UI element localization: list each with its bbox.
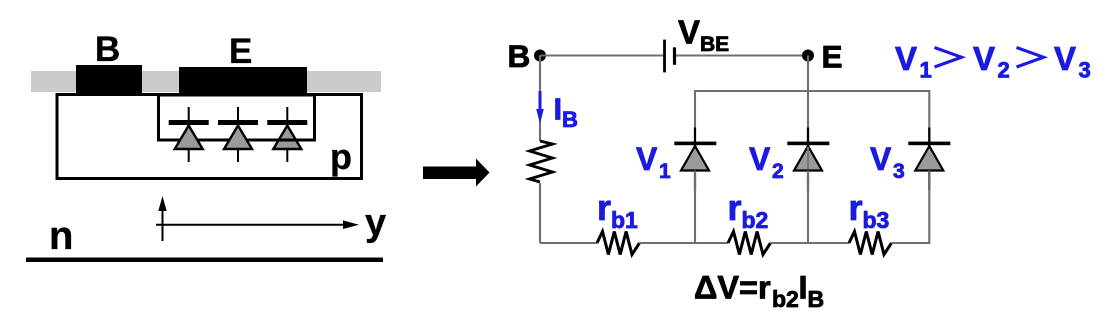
diode D2 (cross-section junction diode) — [224, 126, 252, 150]
diode D1 cathode bar (cross-section) — [169, 120, 209, 125]
svg-text:b1: b1 — [611, 207, 638, 233]
label V3 (diode voltage) — [870, 141, 905, 183]
axis vertical arrow — [158, 196, 166, 241]
diode V3 cathode lead — [928, 128, 930, 147]
wire diode V1 to bottom rail — [694, 171, 696, 244]
svg-text:V: V — [636, 141, 658, 177]
node E junction dot — [802, 50, 814, 62]
label r_b1 (resistor value) — [597, 187, 638, 233]
svg-text:B: B — [562, 107, 578, 132]
svg-text:2: 2 — [772, 160, 784, 183]
diode V2 cathode lead — [807, 128, 809, 147]
svg-text:E: E — [822, 39, 843, 75]
bottom rail wire segment 3 — [771, 242, 850, 244]
diode V3 — [915, 146, 943, 171]
svg-text:V: V — [749, 141, 771, 177]
wire battery to E node — [676, 54, 808, 56]
svg-text:1: 1 — [659, 160, 671, 183]
diode D1 (cross-section junction diode) — [175, 126, 203, 150]
diode V1 cathode bar — [674, 142, 716, 146]
bottom rail wire segment 2 — [640, 242, 729, 244]
label r_b2 (resistor value) — [728, 187, 769, 233]
diode V2 — [794, 146, 822, 171]
label V2 (diode voltage) — [749, 141, 784, 183]
svg-text:E: E — [229, 32, 252, 71]
svg-text:p: p — [330, 136, 352, 177]
diode D3 lead (cross-section) — [286, 107, 288, 162]
wire diode V2 to bottom rail — [807, 171, 809, 244]
battery VBE short plate — [673, 47, 676, 65]
diode V1 anode lead — [694, 170, 696, 191]
diode V1 — [681, 146, 709, 171]
svg-text:3: 3 — [1079, 58, 1091, 83]
diode V3 cathode bar — [908, 142, 950, 146]
svg-text:V: V — [973, 40, 995, 77]
node B junction dot — [534, 50, 546, 62]
label V_BE (battery value) — [678, 14, 729, 57]
diode V2 cathode bar — [787, 142, 829, 146]
svg-text:y: y — [365, 202, 386, 244]
wire resistor down to bottom rail — [539, 183, 541, 243]
bottom rail wire segment 4 — [892, 242, 931, 244]
emitter junction box — [159, 95, 315, 140]
svg-text:r: r — [728, 187, 742, 228]
diode D3 (cross-section junction diode) — [273, 126, 301, 150]
vertical base resistor — [530, 141, 553, 182]
svg-text:n: n — [49, 214, 73, 258]
label I_B (base current) — [554, 92, 578, 133]
top rail wire — [695, 91, 929, 142]
n substrate line — [26, 258, 383, 263]
diode D1 lead (cross-section) — [188, 107, 190, 162]
svg-text:V: V — [895, 40, 917, 77]
svg-text:B: B — [508, 38, 531, 74]
diode V3 anode lead — [928, 170, 930, 191]
wire B node to battery — [540, 54, 663, 56]
svg-text:I: I — [799, 270, 808, 306]
label r_b3 (resistor value) — [849, 187, 890, 233]
svg-text:3: 3 — [893, 160, 905, 183]
wire through diode V2 (E branch overlay) — [807, 147, 809, 169]
diode D2 lead (cross-section) — [237, 107, 239, 162]
svg-text:b2: b2 — [772, 286, 799, 312]
svg-text:V: V — [870, 141, 892, 177]
svg-text:r: r — [597, 187, 611, 228]
diode V2 anode lead — [807, 170, 809, 191]
resistor r_b2 — [728, 232, 771, 255]
wire diode V3 to bottom rail — [928, 171, 930, 244]
battery VBE long plate — [663, 40, 666, 73]
oxide layer gray strip — [31, 71, 381, 92]
diode V1 cathode lead — [694, 128, 696, 147]
emitter contact (E) — [179, 67, 307, 93]
svg-text:r: r — [849, 187, 863, 228]
label V1 (diode voltage) — [636, 141, 671, 183]
wire E node down to top rail — [807, 56, 809, 92]
base contact (B) — [76, 65, 142, 93]
svg-text:I: I — [554, 92, 563, 127]
resistor r_b1 — [597, 232, 640, 255]
svg-text:1: 1 — [920, 58, 932, 83]
svg-text:b2: b2 — [742, 207, 769, 233]
formula deltaV = r_b2 * I_B — [694, 270, 824, 313]
svg-text:BE: BE — [700, 33, 729, 56]
svg-text:2: 2 — [998, 58, 1010, 83]
svg-text:B: B — [95, 30, 120, 69]
svg-text:V: V — [678, 14, 700, 51]
svg-text:ΔV=r: ΔV=r — [694, 270, 771, 306]
bottom rail wire segment 1 — [540, 242, 597, 244]
diode D2 cathode bar (cross-section) — [218, 120, 258, 125]
svg-text:V: V — [1054, 40, 1076, 77]
axis horizontal arrow (y axis) — [156, 220, 359, 229]
wire E branch down to diode V2 — [807, 91, 809, 142]
wire B node down to resistor — [539, 56, 541, 142]
diode D3 cathode bar (cross-section) — [267, 120, 307, 125]
inequality label V1 > V2 > V3 — [895, 40, 1091, 83]
svg-text:B: B — [808, 286, 825, 312]
svg-text:b3: b3 — [863, 207, 890, 233]
current arrow I_B — [536, 91, 544, 124]
implication arrow — [423, 159, 490, 187]
resistor r_b3 — [849, 232, 892, 255]
p region box — [57, 95, 362, 179]
